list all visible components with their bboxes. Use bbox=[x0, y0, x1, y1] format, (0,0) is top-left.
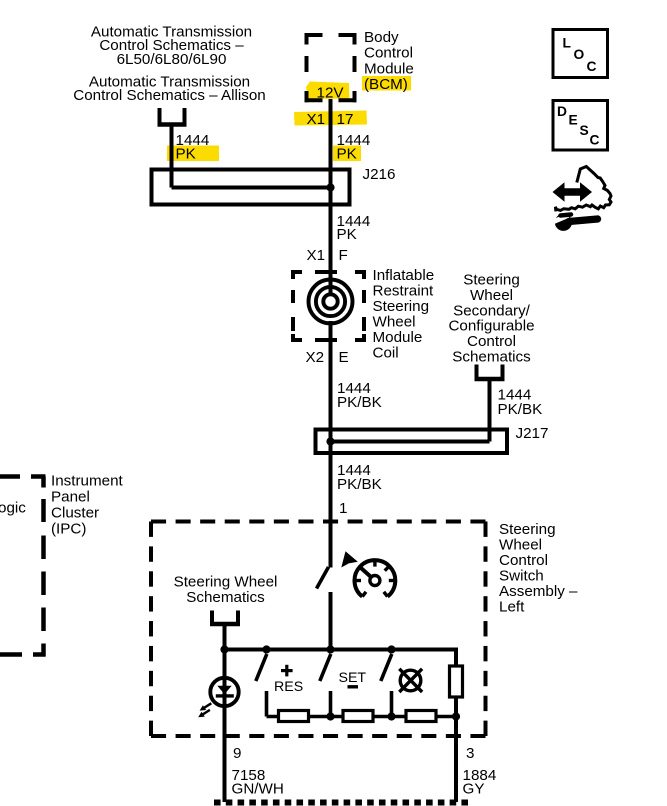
pin 3 label and wire id 1884 GY bbox=[463, 745, 497, 798]
svg-text:PK: PK bbox=[337, 226, 357, 243]
wire from BCM 12V output bbox=[329, 99, 333, 169]
junction dot in J216 bbox=[326, 183, 334, 191]
steering wheel control switch assembly dashed box bbox=[151, 522, 486, 737]
svg-text:PK/BK: PK/BK bbox=[337, 394, 382, 411]
pin labels X2 E at coil bottom bbox=[306, 349, 349, 366]
wire out of coil bbox=[329, 321, 333, 385]
wire main vertical through J217 bbox=[329, 385, 333, 568]
svg-text:Switch: Switch bbox=[499, 568, 544, 585]
svg-text:(BCM): (BCM) bbox=[364, 76, 408, 93]
label 1444 PK/BK below coil bbox=[337, 380, 382, 411]
svg-text:PK: PK bbox=[337, 146, 357, 163]
svg-text:SET: SET bbox=[339, 670, 367, 686]
wire LED branch to pin 9 bbox=[223, 650, 227, 803]
svg-text:X1: X1 bbox=[307, 111, 326, 128]
svg-text:12V: 12V bbox=[317, 85, 345, 102]
junction dots on ladder bbox=[326, 712, 460, 720]
svg-text:L: L bbox=[563, 35, 571, 50]
svg-text:J217: J217 bbox=[516, 425, 549, 442]
svg-text:F: F bbox=[339, 247, 348, 264]
module BCM dashed box bbox=[305, 33, 357, 102]
wire main vertical through J216 bbox=[329, 169, 333, 250]
coil module dashed box bbox=[291, 270, 366, 342]
svg-text:Assembly –: Assembly – bbox=[499, 583, 578, 600]
wire below RES switch bbox=[265, 691, 269, 717]
resistor R2 bbox=[343, 711, 373, 722]
svg-text:Steering: Steering bbox=[373, 298, 430, 315]
highlight 12V bbox=[306, 82, 350, 100]
svg-text:Inflatable: Inflatable bbox=[373, 267, 435, 284]
label 1444 PK (right) bbox=[337, 132, 371, 163]
junction dot in J217 bbox=[326, 437, 334, 445]
resistor R4 (vertical) bbox=[450, 666, 463, 697]
svg-text:S: S bbox=[580, 123, 589, 138]
bus bracket (secondary schematics) bbox=[475, 365, 505, 382]
wire right branch to pin 3 bbox=[454, 697, 458, 802]
label Body Control Module (BCM) bbox=[364, 29, 414, 93]
highlight X1 17 bbox=[294, 111, 367, 126]
svg-text:17: 17 bbox=[337, 111, 354, 128]
bottom connector (cut off) dashed edge bbox=[214, 800, 468, 806]
svg-text:6L50/6L80/6L90: 6L50/6L80/6L90 bbox=[117, 51, 227, 68]
svg-text:C: C bbox=[587, 59, 597, 74]
partial box (logic) at left edge bbox=[0, 477, 22, 655]
wire 1444 PK from bracket to splice J216 bbox=[172, 125, 331, 188]
LOC icon box bbox=[553, 30, 608, 78]
reference label: Automatic Transmission Control Schematics - Allison bbox=[73, 73, 265, 104]
svg-text:Control Schematics – Allison: Control Schematics – Allison bbox=[73, 87, 265, 104]
svg-text:Steering: Steering bbox=[499, 521, 556, 538]
switch cruise on/off blade bbox=[317, 567, 329, 589]
wire below on/off switch bbox=[329, 592, 333, 651]
splice pack J217 box bbox=[316, 430, 508, 454]
wire below cancel switch bbox=[390, 691, 394, 717]
pin 9 label and wire id 7158 GN/WH bbox=[232, 745, 284, 798]
svg-text:PK/BK: PK/BK bbox=[337, 476, 382, 493]
wire 1444 PK/BK from bracket into J217 bbox=[331, 379, 490, 442]
svg-text:Schematics: Schematics bbox=[186, 589, 265, 606]
svg-text:Control: Control bbox=[499, 552, 548, 569]
svg-text:RES: RES bbox=[274, 679, 303, 695]
svg-text:PK: PK bbox=[176, 146, 196, 163]
highlight (BCM) bbox=[362, 76, 411, 91]
svg-text:Schematics: Schematics bbox=[452, 348, 531, 365]
coil spiral winding bbox=[309, 280, 353, 324]
svg-text:3: 3 bbox=[466, 745, 474, 762]
svg-text:Steering Wheel: Steering Wheel bbox=[174, 574, 278, 591]
wire into coil bbox=[329, 245, 333, 296]
svg-text:Restraint: Restraint bbox=[373, 283, 435, 300]
bus wire across switch tops bbox=[225, 650, 457, 668]
pin labels X1 17 bbox=[307, 111, 354, 128]
svg-text:Cluster: Cluster bbox=[51, 504, 99, 521]
svg-text:1: 1 bbox=[339, 500, 347, 517]
junction dots on bus bbox=[220, 645, 395, 653]
svg-text:E: E bbox=[569, 113, 578, 128]
LED indicator bbox=[198, 678, 239, 717]
svg-text:Control: Control bbox=[364, 45, 413, 62]
service tool icon (double arrow, panel outline, wrench) bbox=[553, 167, 612, 231]
svg-text:X1: X1 bbox=[307, 247, 326, 264]
svg-text:Module: Module bbox=[364, 60, 414, 77]
DESC icon box bbox=[553, 101, 608, 151]
svg-text:C: C bbox=[590, 133, 600, 148]
svg-text:E: E bbox=[339, 349, 349, 366]
reference label: Steering Wheel Schematics bbox=[174, 574, 278, 607]
splice pack J216 box bbox=[152, 170, 350, 205]
label + RES bbox=[274, 665, 303, 695]
svg-text:Left: Left bbox=[499, 599, 525, 616]
reference label: Steering Wheel Secondary/Configurable Control Schematics bbox=[448, 272, 534, 366]
wire below SET switch bbox=[329, 691, 333, 717]
svg-text:GY: GY bbox=[463, 781, 485, 798]
label Instrument Panel Cluster (IPC) bbox=[51, 472, 124, 537]
svg-text:(IPC): (IPC) bbox=[51, 520, 86, 537]
svg-text:GN/WH: GN/WH bbox=[232, 781, 284, 798]
pin labels X1 F at coil top bbox=[307, 247, 348, 264]
IPC dashed box right edge bbox=[31, 477, 46, 657]
bottom resistor ladder wire bbox=[267, 715, 457, 719]
svg-text:Wheel: Wheel bbox=[499, 537, 542, 554]
highlight PK right bbox=[333, 146, 361, 162]
svg-text:Instrument: Instrument bbox=[51, 472, 124, 489]
wire label 1444 PK (left) bbox=[176, 132, 210, 163]
cruise control gauge icon bbox=[354, 560, 395, 597]
svg-text:X2: X2 bbox=[306, 349, 325, 366]
svg-text:ogic: ogic bbox=[0, 500, 26, 517]
highlight PK left bbox=[167, 146, 219, 162]
svg-text:J216: J216 bbox=[363, 166, 396, 183]
cancel symbol circled X bbox=[399, 669, 422, 692]
svg-text:Wheel: Wheel bbox=[373, 314, 416, 331]
switch RES blade bbox=[256, 654, 267, 681]
label 1444 PK/BK below J217 bbox=[337, 462, 382, 493]
label 1444 PK below J216 bbox=[337, 213, 371, 243]
svg-text:Coil: Coil bbox=[373, 345, 399, 362]
label SET with minus bbox=[339, 670, 367, 687]
svg-text:Body: Body bbox=[364, 29, 399, 46]
reference label: Automatic Transmission Control Schematics - 6L50/6L80/6L90 bbox=[91, 23, 252, 68]
svg-text:D: D bbox=[557, 104, 567, 119]
label Steering Wheel Control Switch Assembly - Left bbox=[499, 521, 578, 616]
resistor R1 bbox=[279, 711, 309, 722]
resistor R3 bbox=[406, 711, 436, 722]
svg-text:Panel: Panel bbox=[51, 488, 90, 505]
switch SET blade bbox=[320, 654, 331, 681]
svg-text:PK/BK: PK/BK bbox=[498, 401, 543, 418]
bus bracket (steering wheel schematics) bbox=[210, 611, 240, 652]
label 1444 PK/BK (right of wire) bbox=[498, 387, 543, 419]
actuator arrow bbox=[341, 551, 358, 567]
label Inflatable Restraint Steering Wheel Module Coil bbox=[373, 267, 435, 362]
switch cancel blade bbox=[381, 654, 392, 681]
svg-text:9: 9 bbox=[233, 745, 241, 762]
svg-text:O: O bbox=[574, 47, 585, 62]
bus bracket (transmission schematics) bbox=[158, 108, 187, 127]
svg-text:Module: Module bbox=[373, 329, 423, 346]
